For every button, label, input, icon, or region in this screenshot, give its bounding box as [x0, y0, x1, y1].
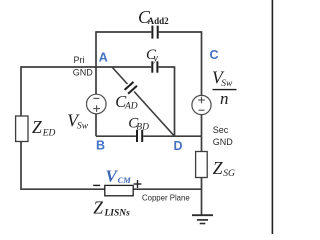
svg-text:GND: GND — [213, 137, 234, 147]
svg-text:Z: Z — [32, 117, 42, 137]
wire top loop right (CAdd2 to node C) — [159, 31, 202, 33]
wire Cy to top-right corner — [159, 66, 175, 68]
wire left branch lower (ZED to bottom rail) — [20, 142, 22, 191]
capacitor CAdd2 — [152, 26, 157, 39]
svg-text:y: y — [152, 53, 158, 64]
label ZED — [32, 117, 56, 138]
wire VSw source to node B — [95, 114, 97, 136]
capacitor CAD — [125, 82, 137, 94]
label Cy — [146, 47, 158, 64]
svg-text:GND: GND — [73, 68, 94, 78]
capacitor CBD — [137, 130, 142, 142]
svg-text:Z: Z — [213, 158, 223, 178]
minus sign of VCM — [93, 184, 100, 186]
wire CBD to node D — [143, 135, 174, 137]
svg-text:LISNs: LISNs — [104, 208, 131, 218]
wire diagonal A-side to CAD — [112, 67, 127, 84]
wire node A down to VSw source — [95, 31, 97, 94]
plus sign of VCM — [134, 180, 142, 188]
label VSw — [67, 110, 88, 131]
svg-text:ED: ED — [42, 128, 56, 138]
impedance ZLISNs — [105, 185, 133, 195]
label ZLISNs — [93, 197, 130, 218]
svg-text:B: B — [96, 139, 105, 153]
wire right edge of bridge (top-right corner to node D) — [174, 66, 176, 136]
impedance ZSG — [196, 152, 208, 178]
wire CAD to node D — [134, 92, 174, 137]
wire D rail to ZSG — [201, 136, 203, 151]
wire node B to CBD — [96, 135, 136, 137]
svg-text:Z: Z — [93, 197, 103, 217]
svg-text:CM: CM — [118, 175, 132, 185]
svg-text:Add2: Add2 — [148, 16, 170, 26]
wire left branch upper (corner to ZED) — [20, 66, 22, 116]
wire Pri GND rail (left corner to node A) — [21, 66, 96, 68]
impedance ZED — [16, 116, 28, 142]
source VSw/n — [192, 95, 211, 114]
svg-text:A: A — [99, 51, 108, 65]
svg-text:AD: AD — [124, 102, 138, 112]
svg-text:BD: BD — [136, 122, 149, 132]
wire ZSG to ground — [201, 178, 203, 216]
wire node C down to VSw/n source — [201, 31, 203, 95]
ground — [192, 215, 213, 223]
label CBD — [128, 115, 149, 132]
label ZSG — [213, 158, 235, 179]
wire node A to Cy — [96, 66, 151, 68]
svg-text:Sw: Sw — [221, 79, 233, 89]
svg-text:V: V — [106, 166, 119, 185]
capacitor Cy — [152, 61, 157, 72]
label VCM — [106, 166, 132, 185]
svg-text:Sw: Sw — [77, 122, 89, 132]
svg-text:C: C — [210, 48, 219, 62]
svg-text:n: n — [220, 89, 229, 108]
svg-text:SG: SG — [223, 169, 235, 179]
label CAD — [115, 92, 138, 111]
column border line — [271, 0, 273, 234]
wire bottom rail (copper plane) — [21, 188, 202, 190]
label VSw/n fraction — [212, 68, 237, 108]
svg-text:Pri: Pri — [74, 55, 85, 65]
source VSw — [87, 94, 107, 114]
svg-text:D: D — [174, 139, 183, 153]
wire node D to Sec GND branch — [175, 135, 202, 137]
label CAdd2 — [138, 7, 169, 27]
wire top loop left (node A to CAdd2) — [96, 31, 151, 33]
svg-text:Sec: Sec — [213, 125, 229, 135]
svg-text:Copper Plane: Copper Plane — [142, 193, 190, 202]
wire VSw/n source to node D rail — [201, 115, 203, 137]
